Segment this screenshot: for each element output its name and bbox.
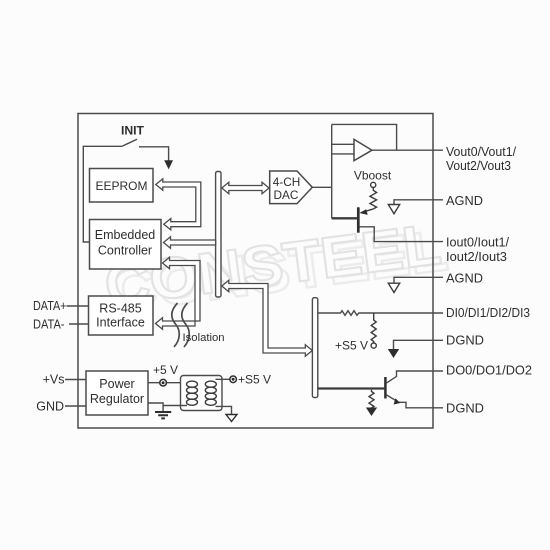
RS-485 Interface box [89, 296, 154, 335]
svg-text:Regulator: Regulator [90, 392, 144, 406]
DGND wire 1 [394, 340, 444, 349]
DATA+ wire [67, 305, 89, 307]
svg-text:DI0/DI1/DI2/DI3: DI0/DI1/DI2/DI3 [446, 306, 530, 320]
svg-text:GND: GND [36, 400, 64, 414]
Q2 base resistor to DGND [369, 390, 374, 408]
+5V wire [148, 382, 187, 384]
svg-text:DATA-: DATA- [33, 318, 65, 332]
DGND symbol 1 (filled) [388, 349, 399, 358]
transistor Q2 emitter wire [386, 395, 443, 408]
svg-text:AGND: AGND [446, 271, 483, 285]
Power Regulator box [86, 371, 148, 415]
arrow bus-DAC [222, 182, 269, 193]
AGND symbol 1 [388, 205, 399, 214]
svg-text:EEPROM: EEPROM [95, 179, 147, 193]
INIT wire (switch to arrow) [139, 147, 169, 161]
earth ground [155, 412, 171, 418]
transformer T1 box [181, 376, 223, 411]
arrow EEPROM-Embedded Controller [156, 179, 201, 230]
svg-text:Vout2/Vout3: Vout2/Vout3 [446, 159, 511, 173]
svg-text:RS-485: RS-485 [99, 302, 141, 316]
transistor Q2 base bar [384, 377, 387, 399]
GND wire [65, 405, 86, 407]
transistor Q2 emitter arrow [394, 398, 401, 404]
svg-text:+Vs: +Vs [43, 373, 65, 387]
svg-text:DGND: DGND [446, 401, 484, 415]
Vboost terminal [371, 182, 376, 187]
arrow bus-Embedded Controller [164, 237, 216, 248]
Embedded Controller box [90, 220, 162, 270]
pull-up resistor to +S5V [371, 313, 376, 343]
transformer secondary ground wire [163, 405, 187, 407]
transistor Q1 emitter arrow [359, 209, 367, 215]
transistor Q1 collector wire / Iout wire [360, 227, 444, 242]
Vboost resistor [370, 188, 377, 209]
svg-text:DATA+: DATA+ [33, 299, 67, 313]
transistor Q1 emitter wire [361, 209, 373, 213]
svg-text:Embedded: Embedded [95, 228, 156, 242]
svg-text:AGND: AGND [446, 194, 483, 208]
svg-text:INIT: INIT [121, 123, 144, 137]
AGND wire 1 [394, 200, 443, 205]
+S5V terminal (power) [230, 376, 237, 383]
main bus bar [216, 172, 221, 298]
svg-text:4-CH: 4-CH [273, 175, 301, 189]
svg-text:DGND: DGND [446, 334, 484, 348]
INIT wire (to Embedded Controller) [83, 146, 122, 242]
op-amp input wires [332, 144, 354, 154]
+Vs wire [65, 379, 86, 381]
isolated ground wire [216, 406, 232, 414]
node vertical wire [331, 124, 333, 218]
outer box [78, 114, 433, 429]
isolation squiggle 2 [182, 303, 189, 347]
EEPROM box [90, 169, 154, 203]
svg-text:Vout0/Vout1/: Vout0/Vout1/ [446, 145, 516, 159]
op-amp feedback wire [332, 124, 397, 150]
transistor Q1 base wire [332, 217, 357, 219]
svg-text:Vboost: Vboost [354, 169, 392, 183]
svg-text:+S5 V: +S5 V [335, 339, 368, 353]
AGND wire 2 [394, 277, 443, 283]
svg-text:+5 V: +5 V [153, 363, 178, 377]
wire DAC to node [312, 186, 331, 188]
isolation squiggle 1 [172, 303, 179, 347]
DGND symbol 2 (filled) [366, 408, 377, 417]
transistor Q2 base wire [318, 387, 385, 389]
svg-text:Interface: Interface [96, 316, 145, 330]
svg-text:Iout0/Iout1/: Iout0/Iout1/ [446, 235, 509, 249]
DI wire with resistor [318, 311, 443, 316]
watermark CONSTEEL [101, 211, 451, 325]
transformer left winding [187, 381, 198, 405]
isolated ground symbol (open) [226, 415, 237, 422]
arrow main bus-DI/DO bus [222, 280, 312, 356]
op-amp U1 [354, 139, 372, 160]
transformer right winding [205, 381, 216, 405]
INIT switch blade [122, 139, 137, 146]
DI/DO bus bar [312, 298, 317, 398]
svg-text:DO0/DO1/DO2: DO0/DO1/DO2 [446, 364, 532, 378]
svg-text:Isolation: Isolation [183, 332, 225, 344]
INIT arrow [165, 161, 172, 168]
arrow Embedded Controller-RS485 (through isolation) [156, 257, 201, 329]
svg-text:Power: Power [99, 377, 134, 391]
svg-text:+S5 V: +S5 V [238, 373, 271, 387]
+S5V output wire [216, 378, 234, 380]
AGND symbol 2 [388, 283, 399, 292]
transistor Q2 collector wire / DO wire [386, 371, 443, 383]
4-CH DAC box [270, 171, 313, 204]
power regulator ground wire [148, 403, 163, 412]
svg-text:Controller: Controller [98, 244, 152, 258]
+S5V terminal (DI pull-up) [371, 343, 376, 348]
DATA- wire [69, 323, 89, 325]
transistor Q1 base bar [357, 207, 360, 232]
+5V terminal [160, 379, 167, 386]
svg-text:Iout2/Iout3: Iout2/Iout3 [446, 250, 507, 264]
Vout wire [372, 149, 443, 151]
svg-text:DAC: DAC [274, 188, 299, 202]
